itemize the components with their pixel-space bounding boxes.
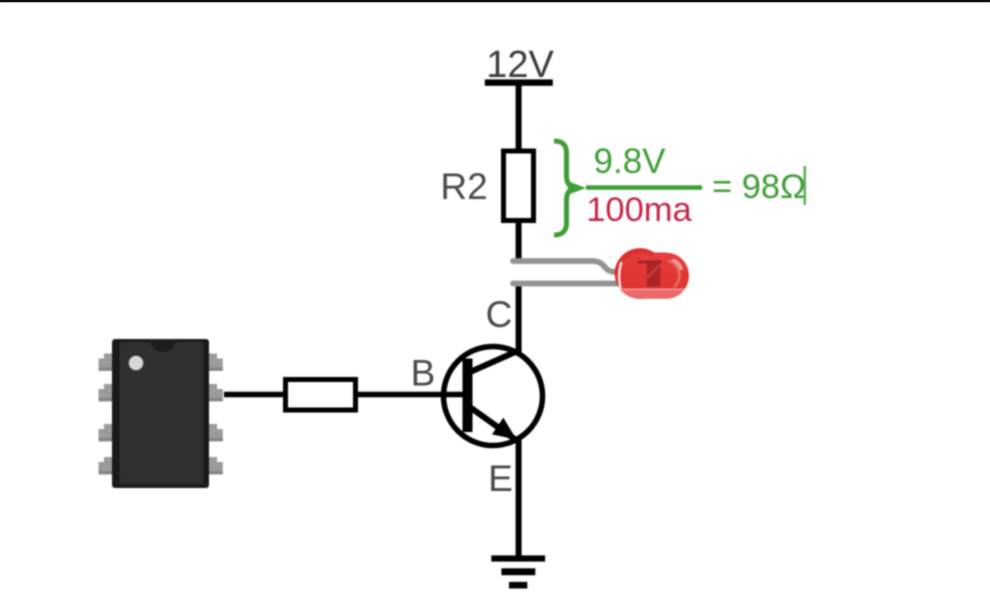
svg-text:= 98Ω: = 98Ω [712,168,806,206]
svg-text:9.8V: 9.8V [594,142,667,181]
svg-text:100ma: 100ma [586,191,692,229]
svg-text:B: B [411,353,436,394]
svg-text:C: C [486,294,513,335]
svg-text:E: E [488,458,513,499]
svg-text:R2: R2 [440,166,487,207]
